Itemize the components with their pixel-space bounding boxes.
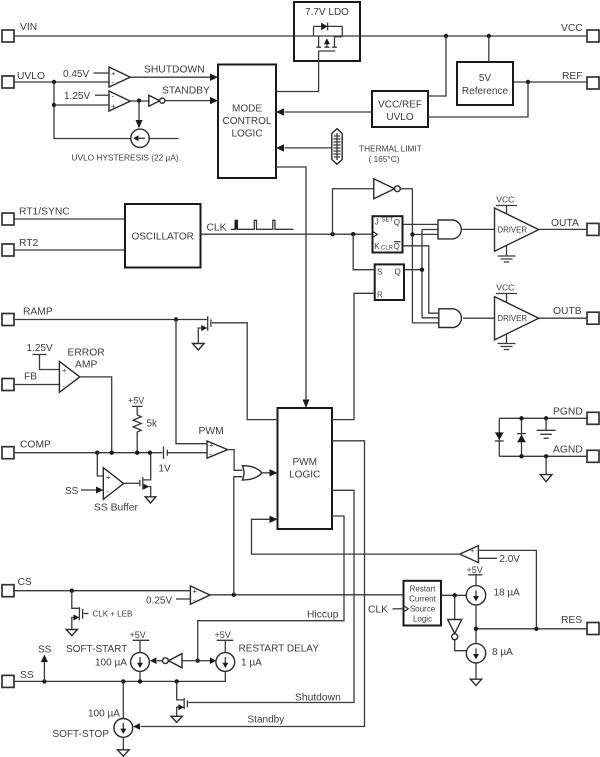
svg-text:PGND: PGND — [553, 407, 583, 418]
svg-text:CLK: CLK — [368, 605, 388, 616]
svg-text:2.0V: 2.0V — [499, 554, 520, 565]
svg-text:PWM: PWM — [292, 457, 316, 468]
svg-text:UVLO: UVLO — [17, 71, 45, 82]
wire STANDBY — [162, 86, 218, 105]
wire PWM logic to SR latch R — [332, 293, 375, 419]
svg-text:DRIVER: DRIVER — [498, 314, 528, 323]
svg-text:S: S — [377, 268, 382, 277]
svg-text:Q: Q — [394, 242, 400, 251]
svg-text:VCC/REF: VCC/REF — [378, 100, 422, 111]
comparator CS 0.25V — [146, 586, 210, 607]
svg-text:AMP: AMP — [75, 360, 97, 371]
svg-text:OUTB: OUTB — [553, 306, 582, 317]
inverter standby — [149, 95, 165, 106]
junction CS comp Q — [232, 593, 236, 597]
svg-text:Standby: Standby — [248, 715, 285, 726]
current source UVLO hysteresis (22 uA) — [72, 129, 179, 162]
error amp — [59, 348, 104, 393]
AND gate A — [438, 220, 461, 239]
RES pin — [561, 615, 599, 635]
comparator 0.45V shutdown — [63, 67, 130, 87]
svg-text:K: K — [374, 242, 380, 251]
wire AND B to driver B — [463, 317, 494, 319]
wire diode pair right leg — [521, 418, 523, 456]
wire VCC/REF UVLO to mode control — [276, 108, 372, 115]
wire UVLO vertical — [54, 82, 131, 139]
svg-text:VCC: VCC — [496, 283, 514, 293]
junction UVLO A — [52, 80, 56, 84]
svg-text:J: J — [375, 218, 379, 227]
wire CLK up to inverter — [333, 189, 374, 234]
svg-text:5k: 5k — [147, 419, 159, 430]
PWM LOGIC box — [278, 408, 333, 529]
svg-text:VCC: VCC — [561, 23, 583, 34]
driver B — [495, 283, 539, 350]
svg-text:+: + — [209, 441, 214, 450]
ground AGND — [540, 456, 552, 481]
junction SS V — [121, 679, 125, 683]
wire JK Qbar to AND B — [403, 246, 439, 313]
svg-text:Q: Q — [395, 268, 401, 277]
svg-text:( 165°C): ( 165°C) — [369, 154, 400, 164]
svg-text:PWM: PWM — [199, 426, 224, 437]
svg-text:7.7V LDO: 7.7V LDO — [305, 7, 349, 18]
wire diode pair left leg — [498, 418, 500, 456]
diode D2 — [517, 434, 526, 443]
wire UVLO input — [14, 81, 109, 83]
wire FB to error amp — [14, 384, 59, 386]
junction PGND Z1 — [519, 416, 523, 420]
wire RAMP line — [14, 319, 207, 321]
junction RES S — [474, 627, 478, 631]
inverter restart gate — [448, 595, 467, 650]
wire inverted CLK down to AND gates — [400, 189, 439, 323]
junction RAMP K — [174, 317, 178, 321]
junction AGND Z3 — [519, 454, 523, 458]
wire JK Q to AND A — [403, 223, 439, 225]
CLK label and waveform — [207, 220, 294, 233]
svg-text:COMP: COMP — [20, 440, 51, 451]
svg-text:AGND: AGND — [553, 445, 583, 456]
svg-text:ERROR: ERROR — [68, 348, 105, 359]
svg-text:+5V: +5V — [128, 396, 144, 406]
svg-text:100 µA: 100 µA — [95, 658, 127, 669]
svg-text:RAMP: RAMP — [23, 307, 53, 318]
svg-text:SHUTDOWN: SHUTDOWN — [144, 65, 205, 76]
current source 18uA — [466, 565, 520, 605]
comparator PWM — [199, 426, 228, 459]
JK flip-flop box — [373, 216, 403, 252]
wire COMP rail — [14, 452, 163, 454]
wire CLK from oscillator — [201, 233, 373, 235]
svg-text:1V: 1V — [159, 464, 172, 475]
junction COMP N — [135, 451, 139, 455]
svg-text:1 µA: 1 µA — [241, 658, 262, 669]
svg-text:RT1/SYNC: RT1/SYNC — [19, 207, 70, 218]
wire CS comp to OR gate — [234, 477, 243, 595]
transistor CLK+LEB blanking — [66, 591, 132, 636]
junction COMP L — [95, 451, 99, 455]
wire LDO gate to mode control — [276, 61, 319, 92]
svg-text:5V: 5V — [479, 73, 492, 84]
resistor 5k pull-up — [128, 396, 158, 453]
AGND pin — [553, 445, 599, 463]
junction VCC E — [487, 34, 491, 38]
OUTB pin — [553, 306, 599, 324]
junction hiccup Y — [196, 659, 200, 663]
AND gate B — [439, 309, 462, 328]
RT1/SYNC pin — [2, 207, 70, 226]
svg-text:LOGIC: LOGIC — [231, 129, 262, 140]
COMP pin — [2, 440, 51, 459]
CS pin — [2, 577, 32, 597]
wire PWM comparator to OR gate — [228, 450, 243, 471]
wire RAMP to PWM comparator — [176, 320, 207, 444]
svg-text:R: R — [377, 291, 383, 300]
wire hiccup to restart delay source — [198, 657, 216, 664]
svg-text:Reference: Reference — [462, 86, 509, 97]
svg-text:Logic: Logic — [413, 615, 432, 624]
junction SS X — [175, 679, 179, 683]
wire SS rail — [14, 680, 226, 682]
REF pin — [562, 71, 599, 89]
svg-text:SS: SS — [38, 645, 52, 656]
wire RES line — [476, 628, 587, 630]
wire ramp FET gate to PWM logic — [212, 323, 278, 420]
wire SR Q to AND gates — [404, 230, 439, 318]
VIN pin — [2, 22, 37, 42]
svg-text:UVLO: UVLO — [386, 112, 413, 123]
junction COMP O — [148, 451, 152, 455]
current source 8uA — [466, 644, 513, 663]
svg-text:FB: FB — [24, 372, 37, 383]
svg-text:+5V: +5V — [467, 565, 483, 575]
svg-text:Restart: Restart — [410, 585, 437, 594]
svg-text:+: + — [106, 473, 111, 482]
current source soft-start 100uA — [66, 630, 149, 681]
wire COMP to SS buffer — [97, 453, 103, 476]
wire VCC to 5V reference — [488, 36, 490, 62]
wire RT2 to oscillator — [14, 249, 125, 251]
svg-text:SOFT-START: SOFT-START — [66, 644, 127, 655]
wire CS to comparator — [14, 590, 190, 592]
svg-text:RESTART DELAY: RESTART DELAY — [239, 644, 320, 655]
wire restart box to 18uA source — [441, 594, 467, 596]
transistor SS buffer clamp — [140, 453, 156, 503]
svg-text:8 µA: 8 µA — [492, 647, 513, 658]
svg-text:SS: SS — [65, 486, 79, 497]
wire shutdown from PWM logic — [188, 490, 354, 702]
svg-text:Q: Q — [394, 218, 400, 227]
wire VIN to VCC rail — [14, 35, 587, 37]
svg-text:Current: Current — [409, 595, 436, 604]
junction AGND Z4 — [544, 454, 548, 458]
wire comparator to inverter — [130, 100, 149, 102]
junction standby node C — [137, 99, 141, 103]
wire standby from PWM logic — [141, 441, 365, 727]
OUTA pin — [551, 218, 599, 235]
7.7V LDO box U1 — [294, 2, 360, 61]
svg-text:CLK + LEB: CLK + LEB — [93, 610, 133, 619]
transistor shutdown discharge — [171, 681, 187, 722]
svg-text:+5V: +5V — [215, 630, 231, 640]
wire VCC to VCC/REF UVLO — [428, 36, 446, 96]
svg-text:18 µA: 18 µA — [494, 588, 521, 599]
svg-text:Shutdown: Shutdown — [295, 693, 341, 704]
current source soft-stop 100uA — [53, 681, 141, 756]
svg-text:OSCILLATOR: OSCILLATOR — [131, 232, 193, 243]
svg-text:CLR: CLR — [381, 246, 394, 252]
VCC pin — [561, 23, 599, 42]
reference 1.25V error amp — [27, 343, 60, 370]
wire RT1 to oscillator — [14, 218, 125, 220]
wire hiccup from PWM logic — [198, 516, 344, 661]
junction UVLO B — [52, 103, 56, 107]
junction COMP M — [110, 451, 114, 455]
wire CLK into restart box — [368, 605, 408, 616]
junction VCC D — [444, 34, 448, 38]
SR latch box — [375, 264, 404, 300]
junction REF F — [526, 80, 530, 84]
ground 8uA — [470, 663, 481, 686]
svg-text:THERMAL LIMIT: THERMAL LIMIT — [359, 144, 422, 154]
PGND pin — [553, 407, 599, 425]
FB pin — [2, 372, 37, 391]
battery 1V offset — [159, 447, 172, 475]
Restart Current Source Logic box — [404, 581, 442, 626]
inverter CLK — [374, 179, 401, 199]
svg-text:+: + — [193, 587, 198, 596]
svg-text:OUTA: OUTA — [551, 218, 579, 229]
comparator restart 2.0V — [460, 546, 521, 565]
wire CLK to SR latch S input — [353, 234, 375, 270]
LDO pass FET Q1 with body diode — [294, 23, 360, 61]
junction CLK G — [330, 232, 334, 236]
OR gate — [242, 466, 262, 480]
svg-text:MODE: MODE — [232, 104, 262, 115]
junction restart R — [453, 593, 457, 597]
inverter soft-start enable — [150, 654, 198, 668]
svg-text:SS: SS — [20, 670, 34, 681]
svg-text:DRIVER: DRIVER — [498, 226, 528, 235]
svg-text:UVLO HYSTERESIS (22 µA): UVLO HYSTERESIS (22 µA) — [72, 153, 179, 163]
OSCILLATOR box — [125, 204, 201, 268]
wire mode control to PWM logic — [276, 167, 310, 408]
svg-text:VCC: VCC — [496, 195, 514, 205]
RT2 pin — [2, 238, 39, 256]
wire 18uA to 8uA — [475, 605, 477, 644]
diode D1 — [495, 432, 504, 441]
svg-text:SOFT-STOP: SOFT-STOP — [53, 729, 110, 740]
svg-text:1.25V: 1.25V — [27, 343, 53, 354]
junction inverted CLK I — [410, 232, 414, 236]
wire REF line — [513, 81, 587, 83]
junction RES T — [534, 627, 538, 631]
svg-text:VIN: VIN — [20, 22, 37, 33]
wire SHUTDOWN — [130, 65, 218, 81]
wire hysteresis control — [136, 101, 143, 129]
SS pin — [2, 670, 34, 687]
junction PGND Z2 — [544, 416, 548, 420]
svg-text:SET: SET — [382, 218, 394, 224]
wire hysteresis stub — [149, 138, 179, 140]
wire OUTB — [539, 317, 587, 319]
junction CS P — [70, 589, 74, 593]
junction SR Q J — [420, 268, 424, 272]
wire SS input arrow — [65, 486, 103, 497]
wire CS comparator output to restart logic — [210, 594, 404, 596]
SS buffer amp — [94, 468, 138, 514]
earth ground PGND — [537, 418, 556, 438]
svg-text:0.45V: 0.45V — [63, 69, 89, 80]
svg-text:+: + — [111, 102, 116, 111]
svg-text:CONTROL: CONTROL — [223, 116, 272, 127]
driver A — [495, 195, 539, 263]
junction CLK H — [351, 232, 355, 236]
svg-text:Hiccup: Hiccup — [307, 610, 339, 621]
wire restart comparator plus input — [478, 550, 536, 628]
UVLO pin — [2, 71, 45, 88]
wire PGND line — [499, 417, 587, 419]
current source restart delay 1uA — [215, 630, 320, 681]
comparator 1.25V standby — [64, 91, 130, 111]
RAMP pin — [2, 307, 53, 326]
wire REF to VCC/REF UVLO — [428, 82, 528, 117]
svg-text:RES: RES — [561, 615, 582, 626]
junction SS W — [138, 679, 142, 683]
wire OUTA — [539, 228, 587, 230]
svg-text:STANDBY: STANDBY — [162, 86, 210, 97]
5V Reference box — [457, 62, 513, 105]
svg-text:+5V: +5V — [130, 630, 146, 640]
svg-text:0.25V: 0.25V — [146, 596, 172, 607]
wire SS buffer to FET gate — [124, 482, 140, 484]
VCC/REF UVLO box — [372, 91, 428, 127]
svg-text:SS Buffer: SS Buffer — [94, 503, 138, 514]
wire AND A to driver A — [462, 228, 494, 230]
junction SS U with up arrow — [38, 645, 52, 684]
svg-text:100 µA: 100 µA — [88, 709, 120, 720]
thermal limit sensor — [332, 129, 422, 165]
svg-text:LOGIC: LOGIC — [289, 470, 320, 481]
wire UVLO to 1.25V comparator — [54, 104, 109, 106]
wire error amp output to COMP rail — [80, 377, 112, 453]
wire restart comparator output to PWM logic — [252, 516, 460, 555]
svg-text:REF: REF — [562, 71, 583, 82]
svg-text:CLK: CLK — [207, 223, 227, 234]
MODE CONTROL LOGIC box — [218, 65, 276, 179]
wire OR to PWM logic — [262, 469, 278, 476]
svg-text:+: + — [62, 366, 67, 375]
svg-text:1.25V: 1.25V — [64, 91, 90, 102]
wire COMP to PWM comparator — [167, 452, 207, 454]
svg-text:Source: Source — [410, 605, 436, 614]
svg-text:CS: CS — [18, 577, 32, 588]
wire thermal limit to mode control — [276, 144, 332, 151]
wire AGND line — [499, 455, 587, 457]
transistor ramp discharge — [193, 316, 211, 350]
svg-text:RT2: RT2 — [19, 238, 39, 249]
